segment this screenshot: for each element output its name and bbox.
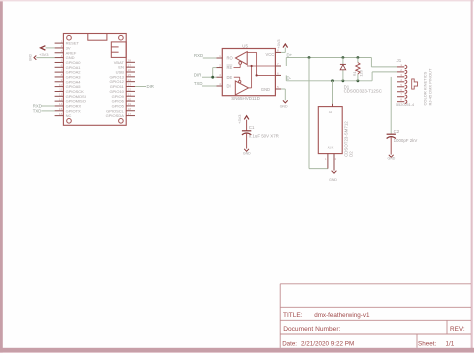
wire D- to D2 top pin: [331, 79, 334, 106]
J1 pin 5: [397, 83, 407, 89]
U5 receiver enable bubble: [239, 62, 242, 65]
U5 pin 2 RE: [217, 67, 223, 69]
ground symbol left of feather: [28, 53, 54, 61]
svg-text:GND: GND: [28, 53, 32, 61]
title block TITLE row: [283, 312, 370, 319]
svg-text:U5: U5: [242, 43, 248, 48]
svg-text:TXD: TXD: [33, 109, 42, 114]
svg-text:RE: RE: [227, 65, 233, 70]
feather pin 1 RESET: [55, 39, 80, 45]
svg-text:dmx-featherwing-v1: dmx-featherwing-v1: [314, 312, 370, 319]
wire D- to J1 pin 2: [372, 72, 397, 81]
svg-text:1/1: 1/1: [446, 341, 455, 348]
svg-text:12: 12: [59, 92, 63, 96]
U5 pin 8 VCC: [275, 51, 281, 53]
svg-text:GND: GND: [261, 87, 270, 92]
J1 pin 3: [397, 73, 407, 79]
ground symbol below C2: [388, 137, 396, 160]
mounting holes: [67, 35, 72, 40]
frame left border bar: [0, 0, 3, 353]
svg-text:6: 6: [277, 71, 279, 75]
feather pin 19 GPIO5: [112, 102, 135, 108]
module A1 Adafruit Feather outline: [63, 34, 126, 126]
svg-text:5: 5: [277, 85, 279, 89]
J1 pin 2: [397, 68, 407, 74]
feather pin 17 GPIOSDA: [106, 112, 135, 118]
svg-text:5: 5: [61, 59, 63, 63]
svg-text:4: 4: [219, 82, 221, 86]
feather pin 5 GPIOA0: [55, 59, 82, 65]
usb connector notch: [88, 34, 107, 41]
feather pin 12 GPIOMOSI: [55, 92, 86, 98]
svg-text:6: 6: [61, 63, 63, 67]
svg-text:3: 3: [219, 73, 221, 77]
ground symbol below U5 GND pin: [280, 89, 288, 109]
frame right border line: [471, 0, 473, 353]
svg-text:RJ-45 DMX PINOUT: RJ-45 DMX PINOUT: [428, 68, 433, 105]
svg-text:28: 28: [128, 59, 132, 63]
svg-text:8: 8: [61, 73, 63, 77]
svg-text:22: 22: [128, 88, 132, 92]
feather pin 9 GPIOA4: [55, 78, 82, 84]
svg-text:GPIOSDA: GPIOSDA: [106, 113, 125, 118]
svg-text:3: 3: [61, 49, 63, 53]
svg-text:GND: GND: [388, 157, 396, 161]
U5 pin 3 DE: [217, 76, 223, 78]
title block document number row: [283, 326, 465, 333]
svg-text:NC: NC: [66, 113, 72, 118]
svg-text:24: 24: [128, 78, 132, 82]
svg-text:20: 20: [128, 97, 132, 101]
U5 driver enable bubble: [239, 80, 241, 82]
svg-text:VCC: VCC: [266, 52, 275, 57]
node D+ junction and wire down to D2: [308, 56, 328, 169]
feather pin 11 GPIOSCK: [55, 88, 85, 94]
J1 pin 1: [397, 63, 407, 69]
diode D1 CDSOD323-T12SC: [340, 56, 382, 94]
svg-text:10: 10: [59, 83, 63, 87]
svg-text:GND: GND: [243, 152, 251, 156]
label COLOR KINETICS RJ-45 DMX PINOUT: [423, 68, 433, 105]
svg-text:REV:: REV:: [450, 326, 465, 333]
feather pin 20 GPIO6: [112, 97, 135, 103]
diode array D2 CDSOT23-SM712: [318, 107, 353, 162]
wire D+ to J1 pin 1: [371, 58, 397, 67]
feather pin 2 3V: [55, 44, 71, 50]
net RXD wire to U5 RO: [194, 53, 217, 58]
feather pin 8 GPIOA3: [55, 73, 82, 79]
svg-text:GND: GND: [280, 105, 288, 109]
svg-text:1000pF 2kV: 1000pF 2kV: [394, 138, 418, 143]
net RXD wire at feather: [33, 104, 55, 109]
svg-text:23: 23: [128, 83, 132, 87]
feather pin 26 USB: [116, 68, 135, 74]
feather pin 18 GPIOSCL: [106, 107, 135, 113]
svg-text:SN65HVD11D: SN65HVD11D: [231, 96, 260, 101]
feather pin 25 GPIO13: [109, 73, 135, 79]
svg-text:2/21/2020 9:22 PM: 2/21/2020 9:22 PM: [301, 341, 354, 348]
svg-text:14: 14: [59, 102, 63, 106]
net DIR wire to U5 DE: [194, 72, 217, 77]
U5 driver triangle: [235, 81, 248, 95]
svg-text:TITLE:: TITLE:: [283, 312, 303, 319]
feather pin 7 GPIOA2: [55, 68, 82, 74]
svg-text:15: 15: [59, 107, 63, 111]
svg-text:13: 13: [59, 97, 63, 101]
feather pin 22 GPIO10: [109, 88, 135, 94]
svg-text:2: 2: [61, 44, 63, 48]
svg-text:Date:: Date:: [282, 341, 297, 348]
ground symbol below D2: [329, 154, 337, 182]
svg-text:TXD: TXD: [194, 81, 203, 86]
feather pin 21 GPIO9: [112, 92, 135, 98]
capacitor C2 1000pF 2kV: [387, 129, 418, 143]
U5 internal junction dots: [251, 65, 253, 67]
svg-text:0.1uF 50V X7R: 0.1uF 50V X7R: [249, 133, 279, 138]
wire J1 pin3 down to C2: [390, 77, 392, 134]
feather pin 3 AREF: [55, 49, 77, 55]
svg-text:2: 2: [219, 64, 221, 68]
D2 bottom-left pin to D+ wire: [327, 154, 329, 169]
op-amp U5 SN65HVD11D RS-485 transceiver: [217, 43, 282, 100]
svg-text:Sheet:: Sheet:: [418, 341, 436, 348]
svg-text:26: 26: [128, 68, 132, 72]
feather pin 6 GPIOA1: [55, 63, 82, 69]
frame top border line: [0, 0, 474, 1]
supply +3V3 arrow left of feather: [39, 46, 55, 58]
feather pin 14 GPIORX: [55, 102, 82, 108]
wire DIR to RE with junction: [211, 68, 216, 79]
RJ-45 jack symbol: [412, 79, 418, 89]
net DIR wire at feather GPIO11: [135, 84, 154, 89]
svg-text:11: 11: [59, 88, 62, 92]
svg-text:Document Number:: Document Number:: [283, 326, 340, 333]
J1 pin 4: [397, 78, 407, 84]
feather pin 13 GPIOMISO: [55, 97, 86, 103]
svg-text:DE: DE: [227, 75, 233, 80]
feather pin 16 NC: [55, 112, 72, 118]
net TXD wire to U5 DI: [194, 81, 217, 86]
svg-text:A1 K: A1 K: [328, 145, 334, 149]
J1 pin 8: [397, 98, 407, 104]
svg-text:16: 16: [59, 112, 63, 116]
frame bottom border bar: [0, 348, 474, 353]
battery connector: [111, 42, 126, 58]
title block: [280, 284, 471, 348]
svg-text:+3V3: +3V3: [39, 52, 49, 57]
svg-text:9: 9: [61, 78, 63, 82]
U5 pin 7 B: [275, 65, 281, 67]
svg-text:7: 7: [61, 68, 63, 72]
svg-text:1: 1: [219, 54, 221, 58]
svg-text:GND: GND: [329, 178, 337, 182]
J1 pin 7: [397, 93, 407, 99]
ground symbol below C1: [243, 134, 251, 156]
svg-text:17: 17: [128, 112, 132, 116]
svg-text:18: 18: [128, 107, 132, 111]
svg-text:1: 1: [61, 39, 63, 43]
svg-text:19: 19: [128, 102, 132, 106]
U5 pin 5 GND: [275, 88, 281, 90]
U5 pin 4 DI: [217, 85, 223, 87]
svg-text:4: 4: [61, 54, 63, 58]
U5 pin 6 A: [275, 74, 281, 76]
feather pin 10 GPIOA5: [55, 83, 82, 89]
feather pin 24 GPIO12: [109, 78, 135, 84]
U5 pin 1 RO: [217, 57, 223, 59]
svg-text:D+: D+: [287, 52, 293, 57]
net D+ wire from U5 pin B: [286, 52, 371, 66]
svg-text:DIR: DIR: [194, 72, 201, 77]
svg-text:RO: RO: [227, 56, 233, 61]
capacitor C1 0.1uF 50V X7R: [242, 125, 279, 138]
svg-text:D-: D-: [287, 76, 292, 81]
svg-text:DIR: DIR: [147, 84, 154, 89]
net TXD wire at feather: [33, 109, 55, 114]
svg-text:A2: A2: [329, 110, 333, 114]
svg-text:R1: R1: [352, 71, 357, 76]
feather pin 23 GPIO11: [110, 83, 135, 89]
svg-text:CDSOD323-T12SC: CDSOD323-T12SC: [344, 89, 382, 94]
svg-text:120: 120: [358, 69, 363, 76]
svg-text:RXD: RXD: [194, 53, 203, 58]
svg-text:27: 27: [128, 63, 132, 67]
U5 receiver triangle: [236, 52, 248, 65]
connector J1 5520251-4 RJ-45 jack: [396, 58, 414, 107]
J1 pin 6: [397, 88, 407, 94]
svg-text:C2: C2: [394, 129, 400, 134]
svg-text:C1: C1: [249, 125, 255, 130]
net D- wire from U5 pin A: [286, 75, 372, 80]
feather pin 28 VBAT: [114, 59, 135, 65]
U5 internal wiring: [234, 67, 241, 69]
supply +3V3 arrow above C1: [237, 115, 249, 131]
resistor R1 120: [352, 56, 363, 82]
supply +3V3 arrow above U5 VCC: [276, 39, 288, 52]
svg-text:+3V3: +3V3: [276, 39, 281, 48]
svg-text:DI: DI: [227, 84, 231, 89]
feather pin 27 EN: [118, 63, 135, 69]
svg-text:+3V3: +3V3: [237, 115, 242, 124]
feather pin 15 GPIOTX: [55, 107, 81, 113]
svg-text:7: 7: [277, 62, 279, 66]
svg-text:21: 21: [128, 92, 132, 96]
svg-text:D2: D2: [349, 151, 354, 157]
title block date and sheet row: [282, 341, 455, 348]
feather pin 4 GND: [55, 54, 75, 60]
svg-text:25: 25: [128, 73, 132, 77]
